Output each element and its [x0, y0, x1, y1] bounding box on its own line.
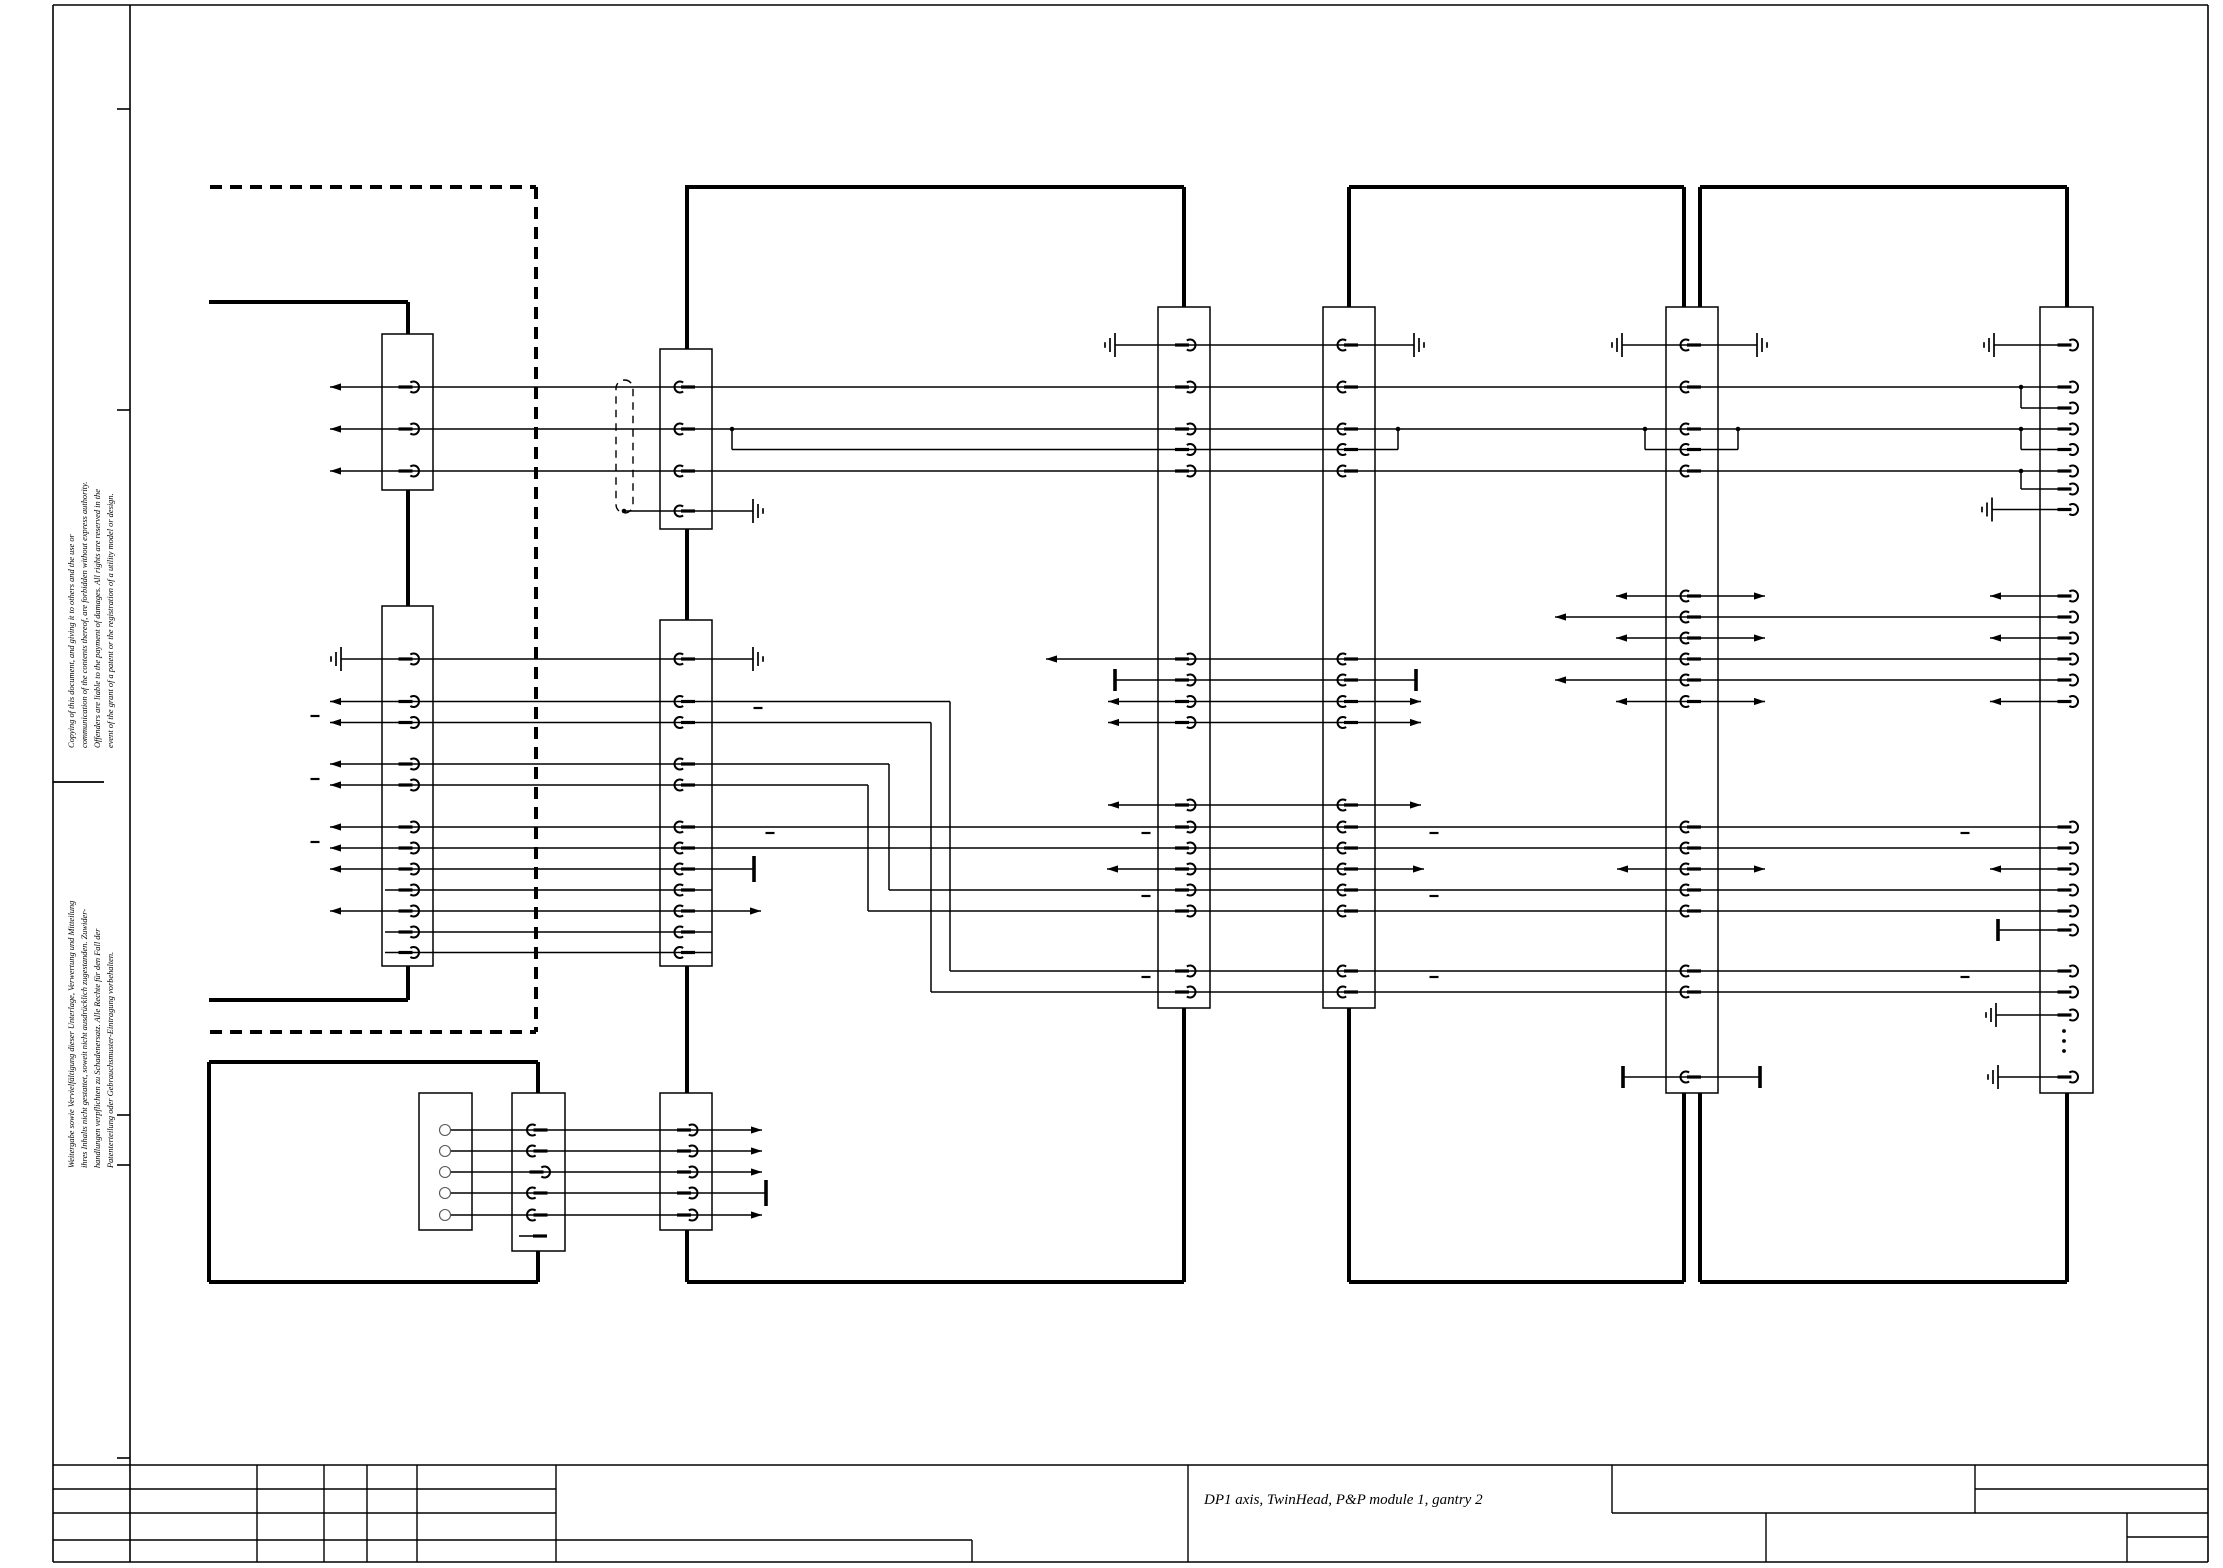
svg-text:handlungen verpflichten zu Sch: handlungen verpflichten zu Schadenersatz… — [93, 928, 102, 1168]
svg-text:Patenterteilung oder Gebrauchs: Patenterteilung oder Gebrauchsmuster-Ein… — [106, 952, 115, 1169]
svg-text:ihres Inhalts nicht gestattet,: ihres Inhalts nicht gestattet, soweit ni… — [80, 909, 89, 1168]
svg-text:Copying of this document, and: Copying of this document, and giving it … — [67, 533, 76, 748]
svg-text:Weitergabe sowie Vervielfältig: Weitergabe sowie Vervielfältigung dieser… — [67, 901, 76, 1168]
svg-text:DP1 axis, TwinHead, P&P module: DP1 axis, TwinHead, P&P module 1, gantry… — [1203, 1492, 1483, 1508]
svg-text:Offenders are liable to the pa: Offenders are liable to the payment of d… — [93, 489, 102, 748]
svg-text:communication of the contents: communication of the contents thereof, a… — [80, 482, 89, 748]
svg-text:event of the grant of a patent: event of the grant of a patent or the re… — [106, 493, 115, 748]
